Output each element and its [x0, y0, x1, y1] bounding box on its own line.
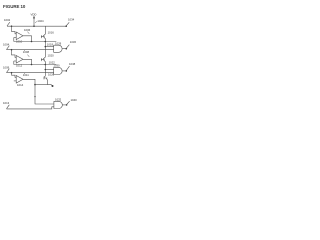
transistor Q2	[41, 42, 45, 65]
junction dot A2	[11, 49, 13, 51]
junction dot VDD-rail	[33, 25, 35, 27]
wire U1 minus stub	[14, 37, 16, 39]
power VDD stub	[33, 17, 35, 27]
terminal OUT1 dot	[65, 25, 67, 27]
wire branch input2 to comparator	[12, 50, 17, 58]
wire rail 3	[14, 64, 57, 66]
junction dot rail2-U1out	[31, 41, 33, 43]
node lead-in 1013 diagonal	[7, 105, 10, 109]
terminal OUT4 diagonal	[67, 101, 70, 104]
svg-text:1032: 1032	[55, 97, 62, 101]
wire U2 minus tap	[13, 61, 15, 65]
node junction dot A1	[11, 25, 13, 27]
svg-text:1002: 1002	[4, 18, 11, 22]
node lead-in 1002 diagonal	[7, 22, 10, 26]
label 1011 leader	[24, 72, 25, 75]
svg-text:1006: 1006	[24, 28, 31, 32]
op-amp U2	[16, 56, 23, 64]
svg-text:1040: 1040	[71, 98, 78, 102]
op-amp U1	[16, 32, 23, 40]
label 1024 leader	[35, 21, 37, 22]
power VDD stub thick	[33, 17, 35, 19]
svg-text:1014: 1014	[17, 83, 24, 87]
gate G3	[54, 101, 62, 108]
terminal OUT3 diagonal	[66, 66, 69, 70]
label 1005 leader	[27, 55, 29, 57]
svg-text:1008: 1008	[23, 50, 30, 54]
terminal OUT2 dot	[66, 48, 68, 50]
transistor Q1	[41, 26, 45, 41]
wire branch input1 to comparator	[12, 26, 17, 34]
wire U2 output	[23, 59, 32, 64]
transistor Q3	[44, 65, 48, 85]
svg-text:1024: 1024	[37, 19, 44, 23]
wire branch input3 to comparator	[12, 73, 17, 78]
junction dot bus-bottom	[34, 84, 36, 86]
label 1006 leader	[27, 32, 29, 34]
junction dot bus-G2	[45, 69, 47, 71]
junction dot rail3-bus	[45, 64, 47, 66]
label 1008 leader	[24, 49, 25, 52]
svg-text:1030: 1030	[53, 64, 60, 68]
wire bus bottom to U3out line	[35, 84, 48, 86]
terminal end dot	[52, 85, 54, 87]
gate G1	[54, 45, 62, 52]
wire U1 output	[23, 36, 32, 42]
svg-text:1034: 1034	[68, 17, 75, 21]
wire G2 output	[62, 70, 66, 72]
svg-text:1012: 1012	[16, 63, 23, 67]
wire U3 minus stub	[14, 80, 16, 82]
junction dot bus-G1	[45, 46, 47, 48]
node lead-in 1004 diagonal	[7, 46, 10, 50]
wire rail 2	[14, 41, 57, 43]
junction dot rail2-bus	[45, 41, 47, 43]
svg-text:1011: 1011	[23, 73, 29, 77]
wire G1 output	[62, 48, 66, 50]
label 1032 leader	[57, 100, 59, 103]
terminal OUT3 dot	[66, 70, 68, 72]
svg-text:1013: 1013	[3, 101, 10, 105]
node lead-in 1009 diagonal	[7, 69, 10, 73]
svg-text:1020: 1020	[48, 53, 55, 57]
svg-text:VDD: VDD	[31, 13, 37, 17]
wire U1 minus tap	[13, 38, 15, 42]
wire input 3	[7, 72, 54, 74]
svg-text:1016: 1016	[48, 31, 55, 35]
wire G3 output	[62, 104, 66, 106]
svg-text:1018: 1018	[47, 43, 54, 47]
svg-text:1009: 1009	[3, 65, 10, 69]
junction dot small	[34, 96, 35, 97]
wire bus branch to G2	[45, 69, 53, 71]
svg-text:1036: 1036	[70, 40, 77, 44]
terminal OUT2 diagonal	[66, 45, 69, 49]
junction dot A3	[11, 72, 13, 74]
gate G2	[54, 67, 62, 74]
wire bus branch to G1	[45, 46, 53, 48]
wire top rail	[7, 25, 66, 27]
svg-text:1038: 1038	[69, 62, 76, 66]
terminal OUT4 dot	[66, 104, 68, 106]
svg-text:1004: 1004	[3, 42, 10, 46]
wire U3 output down to gate3	[23, 79, 54, 104]
wire U2 minus stub	[14, 60, 16, 62]
wire input 2	[7, 49, 54, 51]
op-amp U3	[16, 76, 23, 84]
terminal OUT1 diagonal	[66, 22, 69, 26]
svg-text:FIGURE 10: FIGURE 10	[3, 4, 26, 9]
wire stub right	[48, 84, 53, 87]
svg-text:1028: 1028	[55, 42, 62, 46]
junction dot rail3-U2out	[31, 64, 33, 66]
wire input 4 / bottom rail	[7, 107, 54, 109]
